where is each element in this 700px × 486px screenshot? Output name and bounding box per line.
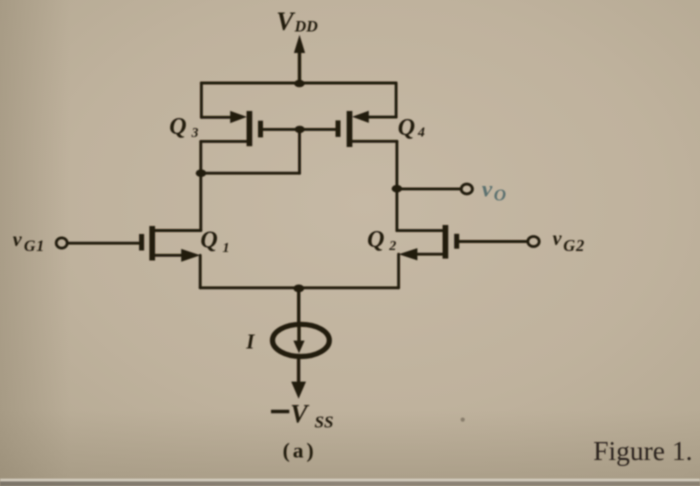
- transistor Q4 gate bar: [336, 120, 341, 136]
- transistor Q1 channel bar: [149, 226, 155, 261]
- wire Q2 source lead: [414, 253, 443, 256]
- transistor Q2 gate bar: [454, 234, 459, 249]
- transistor Q3 channel bar: [247, 111, 253, 146]
- wire tail horizontal: [200, 286, 398, 289]
- current source I circle: [273, 324, 330, 356]
- desk strip at bottom: [0, 481, 700, 486]
- wire Q2 drain lead: [397, 229, 443, 232]
- wire Q3 source lead: [201, 116, 232, 119]
- label -VSS minus sign: [271, 410, 289, 414]
- transistor Q4 source arrow: [352, 111, 369, 123]
- wire Q3 drain lead: [201, 140, 247, 143]
- wire Q4 source vertical: [395, 83, 398, 117]
- transistor Q2 channel bar: [443, 225, 449, 259]
- svg-text:Figure 1.: Figure 1.: [593, 435, 692, 466]
- VDD arrowhead: [294, 35, 305, 53]
- wire current source to VSS: [297, 359, 300, 385]
- top rail wire: [201, 82, 396, 85]
- wire Q4 source lead: [366, 116, 396, 119]
- wire left vertical (Q3 drain to Q1 drain): [199, 141, 202, 230]
- transistor Q1 source arrow: [181, 249, 200, 262]
- wire Q1 gate lead: [68, 242, 139, 245]
- wire Q3 gate lead: [263, 128, 300, 131]
- wire Q1 source lead: [155, 254, 184, 257]
- wire right vertical (Q4 drain to Q2 drain): [395, 141, 398, 230]
- terminal circle vG2: [528, 237, 539, 247]
- wire Q1 source vertical: [199, 255, 202, 287]
- node dot tail: [293, 285, 304, 293]
- node dot output: [392, 185, 403, 193]
- current source arrow stem: [297, 326, 300, 344]
- svg-text:I: I: [245, 329, 255, 353]
- page bottom edge highlight: [0, 479, 700, 486]
- wire Q2 gate lead: [459, 240, 527, 243]
- transistor Q3 gate bar: [258, 121, 263, 138]
- wire Q4 drain lead: [352, 140, 397, 143]
- transistor Q3 source arrow: [230, 111, 247, 123]
- transistor Q1 gate bar: [139, 234, 144, 251]
- wire gate-to-drain feedback horizontal: [201, 172, 300, 175]
- terminal circle vG1: [56, 238, 67, 248]
- wire tail to current source: [297, 288, 300, 323]
- node dot left mid: [196, 169, 207, 177]
- terminal circle vO: [461, 184, 472, 194]
- wire Q1 drain lead: [155, 229, 201, 232]
- node dot under VDD arrow: [294, 80, 305, 88]
- wire Q4 gate lead: [300, 128, 336, 131]
- transistor Q2 source arrow: [399, 248, 418, 260]
- paper blemish speck: [461, 418, 465, 422]
- VDD arrow stem: [298, 47, 301, 83]
- wire output tap: [397, 187, 461, 190]
- svg-text:(a): (a): [283, 438, 317, 462]
- transistor Q4 channel bar: [347, 111, 353, 147]
- VSS arrowhead: [291, 382, 306, 399]
- wire Q3 source vertical: [200, 83, 203, 117]
- current source arrowhead: [293, 341, 304, 354]
- wire Q2 source vertical: [397, 254, 400, 288]
- wire gate-to-drain feedback vertical: [298, 129, 301, 173]
- node dot gates junction: [295, 126, 305, 133]
